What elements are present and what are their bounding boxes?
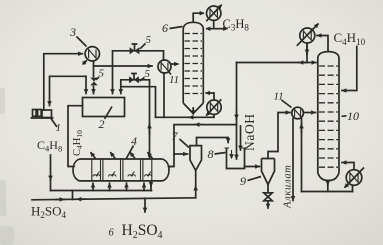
svg-text:NaOH: NaOH (242, 113, 257, 151)
flash drum 2 (83, 98, 125, 117)
column 10 bottom outlet (327, 181, 329, 186)
column 6 overhead (193, 13, 204, 22)
column 10 bottoms line (302, 191, 353, 193)
svg-text:9: 9 (240, 174, 246, 188)
washer 8 (225, 148, 247, 169)
svg-text:5: 5 (146, 34, 152, 46)
label 11 (168, 71, 179, 86)
svg-text:H2SO4: H2SO4 (122, 222, 163, 241)
C4H8 feed drop (50, 155, 52, 180)
column 6 bottoms drop (192, 107, 194, 115)
valve V1 (130, 44, 140, 54)
svg-text:6: 6 (109, 228, 115, 239)
reactor risers (92, 183, 94, 190)
svg-text:5: 5 (145, 68, 151, 80)
scan smudges left edge (0, 88, 14, 245)
reactor 4 vessel (73, 159, 169, 181)
label 10 (342, 109, 360, 123)
reactor agitators (93, 172, 152, 177)
label 7 (172, 129, 190, 148)
valve V2 line into drum 2 (121, 80, 150, 94)
svg-text:5: 5 (99, 68, 105, 80)
svg-text:8: 8 (208, 147, 214, 161)
condenser of column 6 (206, 5, 222, 22)
alkylate product line (292, 119, 294, 201)
condenser 6 outlet (206, 20, 214, 28)
settler 7 (190, 146, 202, 171)
svg-text:3: 3 (69, 25, 76, 39)
reboiler 10 stub (352, 185, 354, 191)
riser header H1 (51, 190, 152, 192)
column 10 bottoms riser to exchanger 11b (301, 119, 303, 192)
svg-text:2: 2 (99, 117, 105, 131)
label 5c (140, 68, 151, 81)
label 2 (99, 107, 113, 132)
main line to exchanger 11 (94, 65, 153, 67)
C3H8 product arrow (214, 28, 228, 30)
exchanger 11 (158, 60, 171, 73)
column 10 (318, 52, 339, 181)
svg-text:Алкилат: Алкилат (283, 164, 294, 209)
wire compressor outlet up to cooler 3 (44, 54, 83, 110)
label 8 (208, 147, 226, 161)
label 6 (162, 21, 183, 35)
svg-text:1: 1 (56, 122, 62, 134)
label 9 (240, 174, 261, 188)
svg-text:7: 7 (172, 129, 179, 143)
label 3 (69, 25, 87, 47)
spent acid out (150, 181, 152, 187)
jog to acid header (72, 191, 74, 200)
cooler 3 (83, 47, 100, 65)
valve V4 under separator 9 (264, 193, 272, 201)
settler 7 acid recycle (195, 186, 197, 198)
reboiler of column 10 (345, 168, 365, 188)
reboiler of column 6 (206, 99, 221, 117)
exchanger 11b outlet to column 10 (303, 112, 315, 114)
reboiler 6 vapour return (206, 93, 215, 100)
label 11b (274, 91, 292, 108)
exchanger 11 bottom stub (163, 73, 165, 117)
svg-text:11: 11 (274, 91, 284, 103)
column 10 overhead to condenser (317, 36, 328, 51)
valve V2 (129, 74, 139, 84)
svg-text:10: 10 (347, 109, 359, 123)
acid header H2 (32, 198, 196, 200)
reactor vapour riser (149, 80, 151, 158)
NaOH feed line (240, 126, 242, 150)
label 1 (51, 119, 61, 135)
svg-text:4: 4 (131, 134, 137, 148)
svg-text:H2SO4: H2SO4 (31, 204, 67, 221)
svg-text:11: 11 (169, 74, 179, 86)
isobutane line from drum 2 to reactor (68, 106, 83, 167)
riser junction to bypass line (113, 51, 164, 66)
reflux into column 10 (307, 62, 316, 64)
column 6 (183, 22, 203, 113)
washer 8 to separator 9 (245, 166, 260, 168)
reactor effluent to settler 7 (169, 166, 174, 168)
C4H10 product return line (342, 47, 357, 91)
svg-text:6: 6 (162, 21, 168, 35)
wire junction down into drum 2 (112, 66, 114, 94)
valve V3 under cooler 3 (90, 78, 97, 86)
condenser of column 10 (297, 24, 319, 46)
settler 7 overhead to washer 8 (197, 138, 229, 146)
label 5b (96, 68, 105, 80)
washer internal tube (236, 125, 238, 159)
condenser 10 down pipe (306, 43, 308, 62)
reactor top vent flags (91, 152, 153, 158)
long distillate line from column 10 condenser (237, 62, 308, 64)
wire drum 2 to compressor 1 (50, 76, 87, 105)
label 4 (126, 134, 137, 159)
separator 9 bottom valve line (267, 185, 269, 209)
cooler 3 outlet down through valve to drum 2 (93, 61, 95, 93)
bottoms line under column 6 (156, 116, 215, 118)
compressor 1 (31, 110, 54, 119)
wire into drum 2 top left (85, 76, 87, 93)
settler 7 inlet (174, 153, 188, 155)
column 10 feed line from separator 9 (268, 113, 290, 159)
reboiler 10 vapour return (342, 163, 354, 170)
column 6 bottoms return line (121, 87, 156, 118)
label 5a (140, 34, 152, 49)
line B2 washer to settler 7 (169, 125, 237, 167)
exchanger 11b (292, 107, 304, 119)
exchanger 11 outlet to column 6 (171, 63, 179, 65)
condensate down line (236, 63, 238, 125)
separator 9 (262, 159, 275, 185)
